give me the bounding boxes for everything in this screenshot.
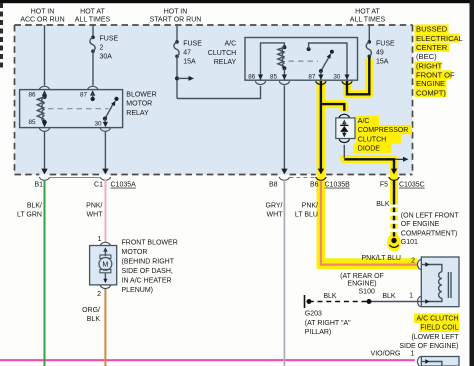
- BEC description text highlighted: [415, 24, 463, 97]
- svg-text:ENGINE: ENGINE: [416, 79, 445, 88]
- pin 87 arrow and contact dot: [90, 90, 95, 101]
- svg-text:85: 85: [270, 74, 278, 81]
- svg-text:(RIGHT: (RIGHT: [416, 61, 443, 70]
- A/C clutch field coil box: [417, 257, 459, 307]
- svg-text:C1035A: C1035A: [111, 182, 137, 189]
- bumps below A/C relay: [255, 81, 352, 84]
- highlight: G101 blob: [387, 234, 401, 252]
- pin 85 riser: [283, 68, 285, 80]
- A/C Clutch Relay box: [245, 38, 358, 81]
- svg-text:ACC OR RUN: ACC OR RUN: [20, 17, 64, 24]
- svg-text:HOT AT: HOT AT: [80, 9, 105, 16]
- highlight: dashed ground wire F5: [390, 208, 398, 237]
- bump pin 30 bottom: [100, 128, 110, 131]
- svg-text:VIO/ORG: VIO/ORG: [371, 350, 401, 357]
- label FUSE 47 15A: [183, 40, 202, 65]
- svg-text:FUSE: FUSE: [100, 36, 119, 43]
- svg-text:2: 2: [100, 45, 104, 52]
- label BLOWER MOTOR RELAY: [126, 91, 156, 117]
- highlight: pin 87 wire down and right to field coil: [317, 81, 326, 264]
- green wire BLK/LT GRN below B1: [44, 180, 46, 366]
- svg-text:(AT RIGHT "A": (AT RIGHT "A": [305, 320, 351, 327]
- Blower Motor Relay box: [20, 90, 123, 128]
- svg-text:PLENUM): PLENUM): [122, 287, 154, 294]
- black core: branch to diode: [321, 104, 344, 111]
- svg-text:FUSE: FUSE: [376, 40, 395, 47]
- label FUSE 49 15A: [376, 40, 395, 65]
- wire feed to fuse 47: [176, 25, 178, 42]
- A/C relay coil: [278, 45, 287, 70]
- svg-text:RELAY: RELAY: [126, 110, 149, 117]
- svg-text:(ON LEFT FRONT: (ON LEFT FRONT: [401, 213, 460, 220]
- svg-text:2: 2: [411, 258, 415, 265]
- label PNK/LT BLU and pin 2: [362, 255, 416, 264]
- svg-text:RELAY: RELAY: [214, 59, 237, 66]
- svg-text:G203: G203: [305, 311, 322, 318]
- svg-text:LT BLU: LT BLU: [295, 212, 318, 219]
- wire A/C relay pin 85 down to B8: [283, 86, 285, 170]
- A/C compressor clutch diode box: [336, 114, 355, 142]
- svg-text:ELECTRICAL: ELECTRICAL: [416, 34, 463, 43]
- power feed HOT AT ALL TIMES right: [350, 9, 386, 24]
- svg-text:START OR RUN: START OR RUN: [150, 17, 202, 24]
- A/C relay switch: [307, 43, 347, 80]
- power feed HOT IN ACC OR RUN: [20, 9, 64, 24]
- ground G101: [389, 238, 399, 248]
- black core: fuse 49 to pin 30: [347, 57, 369, 94]
- bump pin 87 top: [88, 86, 98, 89]
- svg-text:FRONT OF: FRONT OF: [416, 70, 455, 79]
- svg-text:ALL TIMES: ALL TIMES: [75, 17, 111, 24]
- pin labels blower relay: [28, 92, 102, 128]
- pin 30 arrow: [103, 119, 108, 128]
- svg-text:(LOWER LEFT: (LOWER LEFT: [411, 334, 459, 341]
- orange wire ORG/BLK below motor: [104, 289, 106, 366]
- connector F5 C1035C: [380, 169, 425, 189]
- connector B8: [269, 169, 290, 189]
- highlight: fuse 49 to A/C relay pin 30: [347, 59, 369, 95]
- svg-text:87: 87: [308, 74, 316, 81]
- wire feed to fuse 2: [92, 25, 94, 37]
- wire blower relay pin 30 down to C1: [104, 131, 106, 169]
- svg-text:HOT IN: HOT IN: [31, 9, 55, 16]
- ground G203: [305, 295, 312, 308]
- svg-text:FIELD COIL: FIELD COIL: [420, 325, 458, 332]
- svg-text:49: 49: [376, 49, 384, 56]
- svg-text:IN A/C HEATER: IN A/C HEATER: [122, 278, 172, 285]
- svg-text:A/C CLUTCH: A/C CLUTCH: [416, 316, 458, 323]
- gray wire GRY/WHT below B8: [283, 180, 285, 366]
- connector C1035A body line: [50, 177, 101, 179]
- svg-text:30: 30: [94, 121, 102, 128]
- wire fuse 2 to blower relay pin 87: [92, 51, 94, 85]
- label ORG/BLK: [82, 307, 100, 323]
- svg-text:PNK/: PNK/: [86, 203, 102, 210]
- svg-text:BLK: BLK: [87, 316, 101, 323]
- A/C relay link dashed line: [289, 60, 319, 62]
- labels S100 area: [323, 273, 413, 300]
- black core: pin 87 down to connector B6: [320, 81, 322, 170]
- svg-text:C1: C1: [94, 182, 103, 189]
- black core below F5 connector: [393, 181, 395, 205]
- svg-text:COMPRESSOR: COMPRESSOR: [358, 127, 409, 134]
- relay link dashed line: [48, 108, 109, 110]
- svg-text:1: 1: [98, 236, 102, 243]
- black core: diode bottom to F5: [343, 145, 345, 158]
- wire pin1 to S100: [369, 301, 421, 303]
- labels G203: [305, 311, 351, 337]
- wire feed to blower relay pin 86: [44, 25, 46, 86]
- bump pin 85 bottom: [39, 128, 49, 131]
- svg-text:2: 2: [97, 291, 101, 298]
- svg-text:FUSE: FUSE: [183, 40, 202, 47]
- pin 87 riser: [320, 71, 322, 80]
- connector B1: [34, 169, 49, 189]
- svg-text:MOTOR: MOTOR: [122, 249, 148, 256]
- svg-text:87: 87: [80, 92, 88, 99]
- dashed BLK to G203: [310, 301, 367, 303]
- power feed HOT AT ALL TIMES: [75, 9, 111, 24]
- fuse F49 15A: [366, 40, 371, 58]
- dashed BLK ground wire to G101: [393, 208, 395, 237]
- svg-text:BLK: BLK: [382, 293, 396, 300]
- svg-text:A/C: A/C: [358, 118, 370, 125]
- svg-text:M: M: [102, 260, 108, 269]
- svg-text:30: 30: [333, 74, 341, 81]
- internal down arrows at A/C relay pins: [258, 75, 350, 80]
- Bussed Electrical Center box: [15, 25, 413, 175]
- connector C1 C1035A: [94, 169, 136, 189]
- bump pin 86 top: [39, 86, 49, 89]
- salmon core PNK/LT BLU on yellow: [321, 181, 417, 265]
- fuse F47 15A: [174, 40, 179, 58]
- svg-text:30A: 30A: [100, 54, 113, 61]
- svg-text:PILLAR): PILLAR): [305, 329, 331, 336]
- svg-text:BLK: BLK: [376, 201, 390, 208]
- svg-text:B8: B8: [269, 182, 278, 189]
- power feed HOT IN START OR RUN: [150, 9, 202, 24]
- svg-text:COMPARTMENT): COMPARTMENT): [401, 230, 458, 237]
- svg-text:(BEHIND RIGHT: (BEHIND RIGHT: [122, 259, 175, 266]
- svg-text:F5: F5: [380, 182, 388, 189]
- svg-text:PNK/: PNK/: [302, 203, 318, 210]
- svg-text:CLUTCH: CLUTCH: [208, 50, 236, 57]
- svg-text:HOT IN: HOT IN: [164, 9, 188, 16]
- wire blower relay pin 85 down to B1: [44, 131, 46, 169]
- svg-text:MOTOR: MOTOR: [126, 101, 152, 108]
- fuse F2 30A: [90, 36, 95, 54]
- magenta VIO/ORG wire: [0, 359, 415, 361]
- svg-text:BLK/: BLK/: [27, 203, 42, 210]
- front blower motor: [90, 236, 117, 298]
- splice S100: [367, 299, 372, 304]
- svg-text:ORG/: ORG/: [82, 307, 100, 314]
- svg-text:1: 1: [411, 351, 415, 358]
- svg-text:BLK: BLK: [323, 293, 337, 300]
- switch arm and contacts: [103, 97, 119, 121]
- A/C relay internal pin 86 riser: [261, 43, 285, 80]
- pink wire PNK/WHT below C1: [104, 180, 106, 242]
- svg-text:S100: S100: [359, 289, 375, 296]
- svg-text:(BEC): (BEC): [416, 52, 437, 61]
- svg-text:G101: G101: [401, 239, 418, 246]
- label A/C COMPRESSOR CLUTCH DIODE highlighted: [354, 116, 412, 153]
- svg-text:HOT AT: HOT AT: [355, 9, 380, 16]
- wire corner to A/C relay pin 86: [177, 86, 261, 99]
- highlight: diode bottom to F5: [344, 155, 394, 205]
- label A/C CLUTCH FIELD COIL highlighted: [399, 313, 459, 350]
- wire color labels: [17, 201, 390, 219]
- pin 86 arrow and dot: [42, 90, 47, 99]
- svg-text:1: 1: [409, 293, 413, 300]
- connector B6 C1035B: [310, 169, 350, 189]
- svg-text:BLOWER: BLOWER: [126, 91, 156, 98]
- svg-text:BUSSED: BUSSED: [416, 25, 448, 34]
- svg-text:GRY/: GRY/: [266, 203, 283, 210]
- svg-text:B6: B6: [310, 182, 319, 189]
- bottom cut-off component box: [371, 350, 459, 366]
- wire fuse 47 down to corner: [176, 56, 178, 98]
- branch arrow right of F5 corner: [395, 157, 408, 162]
- svg-text:OF ENGINE: OF ENGINE: [401, 221, 440, 228]
- svg-text:WHT: WHT: [267, 212, 284, 219]
- label A/C CLUTCH RELAY: [208, 40, 237, 66]
- junction dot on fuse 47 wire: [175, 76, 179, 80]
- svg-text:(AT REAR OF: (AT REAR OF: [340, 273, 384, 280]
- svg-text:C1035C: C1035C: [399, 182, 425, 189]
- svg-text:ALL TIMES: ALL TIMES: [350, 17, 386, 24]
- connector C1035B body dashes: [290, 177, 317, 179]
- svg-text:86: 86: [248, 74, 256, 81]
- pin labels A/C relay: [248, 74, 341, 81]
- svg-text:DIODE: DIODE: [358, 146, 381, 153]
- svg-text:15A: 15A: [376, 58, 389, 65]
- svg-text:85: 85: [28, 119, 36, 126]
- svg-text:SIDE OF ENGINE): SIDE OF ENGINE): [399, 343, 458, 350]
- svg-text:15A: 15A: [183, 58, 196, 65]
- svg-text:SIDE OF DASH,: SIDE OF DASH,: [122, 268, 173, 275]
- label G101 location: [401, 213, 460, 246]
- svg-text:PNK/LT BLU: PNK/LT BLU: [362, 255, 401, 262]
- svg-text:86: 86: [28, 92, 36, 99]
- pin 85 arrow: [42, 122, 47, 127]
- label FRONT BLOWER MOTOR: [122, 240, 178, 294]
- svg-text:47: 47: [183, 49, 191, 56]
- highlight: branch to diode top: [321, 104, 344, 112]
- svg-text:WHT: WHT: [87, 212, 104, 219]
- relay coil (blower): [37, 97, 46, 124]
- label FUSE 2 30A: [100, 36, 119, 61]
- svg-text:CLUTCH: CLUTCH: [358, 136, 386, 143]
- svg-text:B1: B1: [34, 182, 43, 189]
- svg-text:C1035B: C1035B: [325, 182, 351, 189]
- svg-text:ENGINE): ENGINE): [347, 281, 376, 288]
- svg-text:CENTER: CENTER: [416, 43, 448, 52]
- svg-text:LT GRN: LT GRN: [17, 212, 42, 219]
- svg-text:A/C: A/C: [225, 40, 237, 47]
- wire feed to fuse 49: [368, 25, 370, 42]
- branch arrow to right: [177, 76, 194, 81]
- svg-text:COMPT): COMPT): [416, 88, 446, 97]
- svg-text:FRONT BLOWER: FRONT BLOWER: [122, 240, 178, 247]
